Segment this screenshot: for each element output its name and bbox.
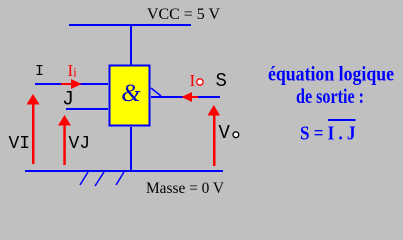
wire input I — [35, 83, 108, 85]
svg-text:Ii: Ii — [68, 61, 78, 80]
svg-text:S = I . J: S = I . J — [300, 124, 356, 145]
current Io arrow on output wire — [182, 92, 199, 102]
svg-text:équation logique: équation logique — [268, 62, 394, 86]
ground hatch mark 3 — [116, 172, 124, 185]
voltage arrow VJ — [58, 115, 71, 165]
nand gate U1 body — [110, 66, 150, 126]
svg-text:de sortie :: de sortie : — [296, 84, 364, 108]
svg-text:VJ: VJ — [69, 134, 91, 154]
gate output inversion slash — [151, 88, 161, 96]
current Ii arrow on input I wire — [61, 79, 82, 89]
wire output S — [151, 96, 220, 98]
voltage arrow Vo — [208, 105, 221, 166]
voltage arrow VI — [27, 94, 40, 164]
voltage Vo label — [219, 122, 239, 144]
svg-text:S: S — [216, 70, 227, 92]
current Io label — [190, 71, 204, 90]
svg-text:&: & — [121, 80, 141, 107]
wire input J — [66, 108, 108, 110]
ground rail (Masse) — [25, 170, 223, 172]
wire gate to ground — [130, 127, 132, 170]
wire VCC drop to gate — [130, 26, 132, 65]
ground hatch mark 2 — [95, 172, 104, 186]
equation overline (NOT bar) — [328, 119, 356, 121]
ground hatch mark 1 — [80, 172, 88, 185]
svg-text:V: V — [219, 122, 231, 144]
wire VCC rail — [69, 24, 191, 26]
svg-text:I: I — [190, 71, 196, 90]
svg-text:VCC = 5 V: VCC = 5 V — [147, 6, 220, 23]
svg-text:J: J — [62, 89, 74, 112]
svg-text:I: I — [35, 63, 44, 80]
svg-text:VI: VI — [9, 134, 31, 154]
svg-text:Masse = 0 V: Masse = 0 V — [146, 180, 224, 197]
